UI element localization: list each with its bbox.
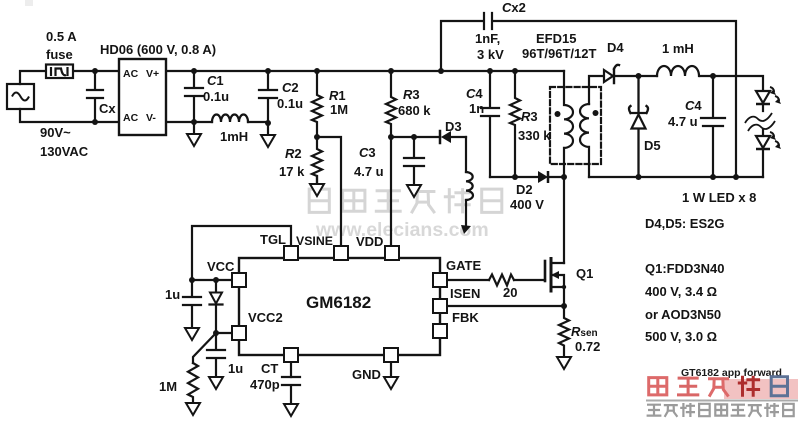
node snubber bottom — [512, 174, 518, 180]
transformer primary winding — [564, 71, 573, 177]
wire: R2 ground stub — [316, 176, 318, 184]
wire: output bottom rail — [589, 176, 763, 178]
svg-text:90V~: 90V~ — [40, 125, 71, 140]
svg-text:AC: AC — [123, 112, 139, 124]
svg-text:1u: 1u — [165, 287, 180, 302]
grounds (open triangles) — [185, 134, 571, 416]
svg-text:D5: D5 — [644, 138, 661, 153]
svg-text:1u: 1u — [228, 361, 243, 376]
svg-text:C4: C4 — [466, 86, 483, 101]
pin CT — [284, 348, 298, 362]
diode D3 — [439, 131, 442, 143]
svg-text:500 V, 3.0 Ω: 500 V, 3.0 Ω — [645, 329, 717, 344]
wire: ISEN net — [447, 305, 564, 307]
pin VSINE — [334, 246, 348, 260]
svg-text:Rsen: Rsen — [571, 324, 598, 339]
node Cx2 return — [733, 174, 739, 180]
node VDD — [388, 134, 394, 140]
wire: CT to 470p — [290, 362, 292, 377]
resistor R3 330k — [510, 71, 520, 177]
svg-text:D4: D4 — [607, 40, 624, 55]
node snubber C4 top — [487, 68, 493, 74]
wire: AC source bottom to bridge — [20, 109, 119, 122]
ground below C1 — [193, 122, 195, 134]
wire: Cx2 riser — [441, 21, 482, 71]
pin GND — [384, 348, 398, 362]
LED string break squiggle — [745, 113, 775, 131]
svg-text:1mH: 1mH — [220, 129, 248, 144]
svg-text:3 kV: 3 kV — [477, 47, 504, 62]
svg-text:1M: 1M — [159, 379, 177, 394]
diode D4 triangle — [604, 70, 613, 82]
svg-text:V-: V- — [146, 112, 156, 124]
wire: VDD node to D3 — [391, 136, 440, 138]
diode VCC-VCC2 — [210, 280, 223, 333]
wire: GND pin stub — [390, 362, 392, 377]
ground 1M — [186, 403, 200, 415]
diode D5 vertical — [629, 76, 648, 177]
resistor R3 680k — [386, 71, 396, 137]
transformer secondary winding — [580, 104, 589, 177]
capacitor Cx — [87, 71, 103, 122]
node C1 bottom / V- rail — [191, 119, 197, 125]
node fuse/Cx top — [92, 68, 98, 74]
svg-text:470p: 470p — [250, 377, 280, 392]
svg-text:0.1u: 0.1u — [277, 96, 303, 111]
capacitor C3 — [404, 137, 424, 185]
pin FBK — [433, 324, 447, 338]
svg-text:FBK: FBK — [452, 310, 479, 325]
svg-text:0.72: 0.72 — [575, 339, 600, 354]
wire: snubber bottom — [490, 176, 564, 178]
ground 1u VCC2 — [209, 377, 223, 389]
diode D3 triangle — [441, 131, 451, 143]
IC GM6182 body — [239, 258, 440, 355]
MOSFET body arrow — [551, 271, 559, 279]
stray mark top-left — [25, 0, 33, 6]
svg-text:D4,D5: ES2G: D4,D5: ES2G — [645, 216, 724, 231]
node C3 tap — [411, 134, 417, 140]
pin VDD — [385, 246, 399, 260]
wire: GATE net — [447, 279, 489, 281]
svg-text:C1: C1 — [207, 73, 224, 88]
pin TGL — [284, 246, 298, 260]
svg-text:ISEN: ISEN — [450, 286, 480, 301]
svg-text:VCC: VCC — [207, 259, 235, 274]
svg-text:20: 20 — [503, 285, 517, 300]
node C2 top — [265, 68, 271, 74]
svg-text:C3: C3 — [359, 145, 376, 160]
pin VCC2 — [232, 326, 246, 340]
svg-text:0.1u: 0.1u — [203, 89, 229, 104]
ground GND pin — [384, 377, 398, 389]
node C2 bottom — [265, 120, 271, 126]
node ISEN/Rsen — [561, 303, 567, 309]
svg-text:400 V: 400 V — [510, 197, 544, 212]
node drain/primary/D2 — [561, 174, 567, 180]
svg-text:1n: 1n — [469, 101, 484, 116]
diode D5 triangle — [632, 115, 646, 129]
svg-text:C2: C2 — [282, 80, 299, 95]
resistor R1 — [312, 71, 322, 137]
diode D2 — [538, 171, 548, 183]
svg-text:fuse: fuse — [46, 47, 73, 62]
svg-text:EFD15: EFD15 — [536, 31, 576, 46]
node Cx2 tap — [438, 68, 444, 74]
transformer phase dots — [555, 111, 561, 117]
node R1 top — [314, 68, 320, 74]
inductor L 1mH EMI — [212, 115, 248, 122]
resistor 1M — [188, 363, 198, 403]
svg-text:1M: 1M — [330, 102, 348, 117]
LED2 — [756, 132, 781, 149]
ground below C2 — [267, 123, 269, 135]
ground C2 — [261, 135, 275, 147]
ground 1u VCC — [185, 328, 199, 340]
node R3 top — [388, 68, 394, 74]
resistor 20 gate — [489, 275, 514, 286]
ground Rsen — [557, 357, 571, 369]
diode D4 cathode bar — [614, 65, 619, 83]
LED1 — [756, 87, 781, 104]
svg-text:VCC2: VCC2 — [248, 310, 283, 325]
wire: aux winding bottom — [465, 200, 467, 226]
aux winding arrow — [461, 225, 471, 234]
svg-text:96T/96T/12T: 96T/96T/12T — [522, 46, 596, 61]
inductor aux winding — [466, 172, 473, 200]
wire: secondary top to D4 — [589, 76, 604, 104]
capacitor Cx2 — [484, 13, 492, 29]
capacitor 470p — [282, 377, 300, 404]
capacitor 1u VCC — [183, 280, 201, 328]
node Cx bottom — [92, 119, 98, 125]
svg-text:C4: C4 — [685, 98, 702, 113]
wire: VSINE net — [317, 137, 341, 246]
diode VCC-VCC2 triangle — [210, 293, 222, 304]
node D5 return — [636, 174, 642, 180]
svg-text:GND: GND — [352, 367, 381, 382]
pin VCC — [232, 273, 246, 287]
svg-text:17 k: 17 k — [279, 164, 305, 179]
capacitor C1 — [185, 71, 203, 122]
wire: fuse to bridge top — [73, 70, 119, 72]
svg-text:or AOD3N50: or AOD3N50 — [645, 307, 721, 322]
svg-text:GATE: GATE — [446, 258, 481, 273]
svg-text:VSINE: VSINE — [296, 234, 333, 248]
pin GATE — [433, 273, 447, 287]
node D4/D5/L1 — [636, 73, 642, 79]
svg-text:R2: R2 — [285, 146, 302, 161]
svg-text:GM6182: GM6182 — [306, 293, 371, 312]
svg-text:HD06 (600 V, 0.8 A): HD06 (600 V, 0.8 A) — [100, 42, 216, 57]
svg-text:0.5 A: 0.5 A — [46, 29, 77, 44]
watermark center gray — [309, 189, 502, 241]
fuse F1 — [46, 65, 73, 79]
watermark bottom-right — [646, 367, 798, 416]
wire: Cx2 to output return — [494, 21, 736, 177]
wire: VCC loop to TGL — [192, 226, 291, 280]
svg-text:AC: AC — [123, 68, 139, 80]
wire: output top rail — [614, 76, 763, 91]
svg-text:R3: R3 — [403, 87, 420, 102]
resistor R2 — [312, 137, 322, 184]
svg-text:D2: D2 — [516, 182, 533, 197]
wire: drain vertical — [563, 177, 565, 263]
svg-text:R1: R1 — [329, 88, 346, 103]
ground 470p — [284, 404, 298, 416]
node VCC diode — [213, 277, 219, 283]
wire: LED string — [762, 91, 764, 177]
svg-text:130VAC: 130VAC — [40, 144, 89, 159]
svg-text:1 mH: 1 mH — [662, 41, 694, 56]
capacitor C4 4.7u — [701, 76, 725, 177]
node VSINE divider — [314, 134, 320, 140]
node VCC2 — [213, 330, 219, 336]
wire: diagonal to 1M — [193, 333, 216, 363]
svg-text:V+: V+ — [146, 68, 159, 80]
svg-text:680 k: 680 k — [398, 103, 431, 118]
svg-text:Q1: Q1 — [576, 266, 593, 281]
svg-text:4.7 u: 4.7 u — [354, 164, 384, 179]
svg-text:R3: R3 — [521, 109, 538, 124]
svg-text:Q1:FDD3N40: Q1:FDD3N40 — [645, 261, 724, 276]
svg-text:D3: D3 — [445, 119, 462, 134]
wire: top rail V+ from bridge to transformer primary — [166, 70, 564, 72]
node snubber R3 top — [512, 68, 518, 74]
svg-text:400 V, 3.4 Ω: 400 V, 3.4 Ω — [645, 284, 717, 299]
inductor 1mH output — [657, 66, 699, 76]
resistor Rsen — [559, 306, 569, 357]
ground C1 — [187, 134, 201, 146]
svg-text:Cx2: Cx2 — [502, 0, 526, 15]
wire: VCC2 to pin — [216, 332, 232, 334]
bridge HD06 — [119, 59, 166, 135]
wire: AC source top stub — [20, 71, 46, 84]
ground R2 — [310, 184, 324, 196]
svg-text:VDD: VDD — [356, 234, 383, 249]
svg-text:TGL: TGL — [260, 232, 286, 247]
ground C3 — [407, 185, 421, 197]
node C4 out return — [710, 174, 716, 180]
svg-text:1 W LED x 8: 1 W LED x 8 — [682, 190, 756, 205]
node L1/C4 out — [710, 73, 716, 79]
svg-text:4.7 u: 4.7 u — [668, 114, 698, 129]
MOSFET Q1 — [544, 261, 547, 281]
node VCC cap — [189, 277, 195, 283]
wire: V- rail from bridge to C2 — [166, 121, 268, 123]
svg-text:Cx: Cx — [99, 101, 116, 116]
capacitor 1u VCC2 — [207, 333, 225, 377]
pin ISEN — [433, 299, 447, 313]
capacitor C4 1n — [481, 71, 499, 177]
transformer T1 dashed box — [550, 87, 601, 164]
wire: VDD net down — [390, 137, 392, 246]
capacitor C2 — [259, 71, 277, 123]
svg-text:1nF,: 1nF, — [475, 31, 500, 46]
svg-text:CT: CT — [261, 361, 278, 376]
svg-text:330 k: 330 k — [518, 128, 551, 143]
wire: aux winding top — [465, 137, 467, 172]
AC source — [7, 84, 34, 109]
node C1 top — [191, 68, 197, 74]
